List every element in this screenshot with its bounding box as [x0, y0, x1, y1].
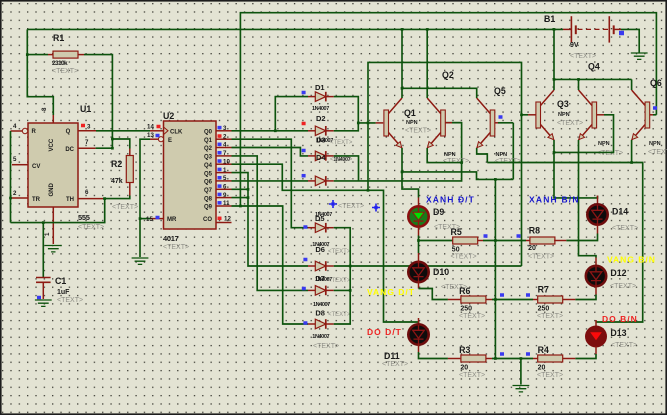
- svg-text:<TEXT>: <TEXT>: [459, 372, 485, 379]
- svg-text:<TEXT>: <TEXT>: [163, 244, 189, 251]
- junction Q0/D1: [274, 129, 277, 132]
- wire Q1/Q5 collector link: [402, 88, 477, 98]
- pin D9 cathode stub: [418, 226, 420, 236]
- svg-text:GND: GND: [49, 183, 55, 197]
- svg-text:Q6: Q6: [650, 78, 662, 88]
- pin D11 anode stub: [418, 318, 420, 325]
- svg-text:<TEXT>: <TEXT>: [459, 313, 485, 320]
- svg-text:VCC: VCC: [49, 138, 55, 151]
- pin 3 Q0 stub: [216, 130, 232, 132]
- svg-text:Q3: Q3: [204, 155, 213, 161]
- transistor Q2 NPN: [441, 110, 446, 136]
- wire Q5 base down to bus: [512, 123, 514, 180]
- wire Q5/Q6 emitter to D13: [487, 163, 642, 323]
- svg-text:<TEXT>: <TEXT>: [597, 150, 623, 157]
- svg-text:U1: U1: [80, 104, 91, 114]
- pin 5 CV stub: [12, 164, 28, 166]
- svg-text:<TEXT>: <TEXT>: [112, 204, 138, 211]
- svg-text:1N4007: 1N4007: [312, 106, 329, 112]
- svg-text:<TEXT>: <TEXT>: [537, 313, 563, 320]
- svg-text:3: 3: [223, 125, 227, 132]
- svg-text:<TEXT>: <TEXT>: [610, 283, 636, 290]
- wire Q1 emitter to D9: [402, 148, 419, 198]
- ground U2: [132, 258, 149, 264]
- pin 2 Q1 stub: [216, 138, 232, 140]
- junction base net / green bus: [367, 122, 370, 125]
- node markers R6 R7 row: [500, 293, 504, 297]
- wire Q2 collector to rail: [426, 29, 428, 98]
- transistor Q3 NPN: [536, 102, 541, 128]
- junction C1 top: [42, 221, 45, 224]
- svg-text:<TEXT>: <TEXT>: [405, 128, 431, 135]
- svg-text:D2: D2: [316, 114, 326, 123]
- svg-text:555: 555: [78, 213, 90, 222]
- wire right rail drop to Q3 collector: [553, 29, 555, 90]
- svg-text:DO D/T: DO D/T: [367, 327, 402, 337]
- node markers R5 R8 row: [484, 234, 488, 238]
- wire Q1 emitter to resistor bus: [402, 172, 513, 180]
- pin D11 cathode stub: [418, 344, 420, 352]
- svg-text:2: 2: [223, 133, 227, 140]
- svg-text:D13: D13: [610, 328, 626, 338]
- svg-text:<TEXT>: <TEXT>: [611, 342, 637, 349]
- pin 5 Q6 stub: [216, 180, 232, 182]
- diode D6 1N4007: [308, 265, 315, 267]
- counter U2 4017 body: [164, 121, 217, 229]
- svg-text:7: 7: [223, 150, 227, 157]
- pin 4 R stub with bubble: [11, 130, 23, 132]
- wire Q3 base stub: [522, 114, 529, 116]
- ground U1: [45, 246, 62, 252]
- svg-text:47k: 47k: [111, 178, 123, 185]
- svg-text:1N4007: 1N4007: [313, 302, 330, 308]
- wire R2 bottom to TH: [103, 196, 130, 199]
- svg-text:NPN: NPN: [406, 120, 418, 126]
- led D11 DO D/T: [408, 324, 428, 344]
- svg-text:11: 11: [223, 200, 230, 207]
- resistor R2: [129, 149, 131, 156]
- svg-text:Q1: Q1: [404, 108, 416, 118]
- svg-text:CV: CV: [32, 164, 40, 170]
- svg-text:R1: R1: [53, 33, 64, 43]
- diode D2 1N4007: [308, 130, 315, 132]
- svg-text:R6: R6: [459, 286, 470, 296]
- svg-text:Q6: Q6: [204, 180, 213, 186]
- wire Q8 join D6 net: [232, 197, 249, 199]
- junction TH node: [103, 197, 106, 200]
- pin D13 cathode stub: [595, 346, 597, 354]
- svg-text:1: 1: [223, 167, 227, 174]
- wire red group joins Q3 base net: [350, 265, 521, 267]
- svg-text:15: 15: [146, 216, 153, 223]
- wire Q2 base stub: [445, 122, 452, 124]
- svg-text:Q4: Q4: [588, 62, 600, 72]
- pin 2 TR stub: [11, 197, 29, 199]
- diode D8 1N4007: [308, 323, 315, 325]
- wire D1 cathode to Q1 base net: [334, 97, 359, 123]
- svg-text:D14: D14: [612, 207, 628, 217]
- svg-text:6: 6: [223, 184, 227, 191]
- svg-text:<TEXT>: <TEXT>: [451, 254, 477, 261]
- pin 8 VCC stub: [52, 115, 54, 123]
- svg-text:<TEXT>: <TEXT>: [537, 372, 563, 379]
- svg-text:Q7: Q7: [204, 188, 213, 194]
- svg-text:D12: D12: [610, 268, 626, 278]
- pin D14 anode stub: [597, 196, 599, 205]
- pin 13 E stub with bubble: [150, 138, 159, 140]
- wire R6 to R7: [492, 299, 533, 301]
- node markers R3 R4 row: [500, 352, 504, 356]
- svg-text:TR: TR: [32, 197, 41, 203]
- transistor Q4 NPN: [592, 102, 597, 128]
- wire D10 cathode to R6: [419, 289, 448, 300]
- wire Q6 base stub: [653, 114, 656, 116]
- svg-text:20: 20: [538, 365, 546, 372]
- svg-text:MR: MR: [167, 217, 177, 223]
- svg-text:10: 10: [223, 158, 230, 165]
- svg-text:R7: R7: [538, 285, 549, 295]
- svg-text:NPN: NPN: [649, 141, 661, 147]
- pin 14 CLK stub: [150, 130, 164, 132]
- wire Q7 join D6 net: [232, 188, 249, 190]
- pin D14 cathode stub: [597, 224, 599, 233]
- svg-text:D5: D5: [315, 214, 325, 223]
- diode D7 1N4007: [308, 289, 315, 291]
- svg-text:R5: R5: [451, 227, 462, 237]
- wire mid bus upper: [494, 179, 496, 240]
- svg-text:D4: D4: [316, 153, 326, 162]
- wire Q0 to D1 D2 anodes: [232, 130, 309, 132]
- svg-text:DO B/N: DO B/N: [602, 314, 638, 324]
- wire Q5 to D6 anode: [232, 173, 309, 266]
- svg-text:D9: D9: [433, 207, 444, 217]
- ground battery: [631, 53, 648, 59]
- pin D10 cathode stub: [418, 282, 420, 289]
- pin 7 Q3 stub: [216, 155, 232, 157]
- svg-text:1N4007: 1N4007: [312, 334, 329, 340]
- svg-text:5: 5: [223, 175, 227, 182]
- svg-text:Q1: Q1: [204, 138, 213, 144]
- svg-text:2310k: 2310k: [52, 60, 68, 67]
- diode D4 1N4007: [308, 180, 315, 182]
- node marker Q6 base: [653, 106, 657, 110]
- junction D7 cathode: [334, 289, 351, 291]
- junction Q3 base: [520, 113, 523, 116]
- svg-text:XANH Đ/T: XANH Đ/T: [426, 195, 475, 205]
- svg-text:4017: 4017: [163, 234, 179, 243]
- wire D9 cathode chain: [418, 236, 420, 254]
- svg-text:250: 250: [460, 306, 472, 313]
- svg-text:Q: Q: [66, 129, 71, 135]
- wire Q4 to D11 feed: [232, 164, 419, 324]
- wire Q9 to D8 anode: [232, 206, 309, 324]
- svg-text:Q2: Q2: [204, 146, 213, 152]
- svg-text:CLK: CLK: [170, 130, 183, 136]
- wire D2 cathode join: [334, 123, 359, 131]
- svg-text:VANG B/N: VANG B/N: [607, 255, 656, 265]
- diode D3 1N4007: [308, 155, 315, 157]
- wire R3 to R4: [492, 358, 533, 360]
- transistor Q6 NPN: [645, 102, 650, 128]
- op-amp U1 555 timer body: [28, 123, 78, 207]
- wire base net down to D11 feed: [367, 123, 369, 190]
- svg-text:CO: CO: [203, 217, 212, 223]
- svg-text:<TEXT>: <TEXT>: [570, 53, 596, 60]
- pin 12 CO stub: [216, 222, 232, 224]
- svg-text:D7: D7: [315, 274, 325, 283]
- pin D12 anode stub: [595, 258, 597, 267]
- wire Q6 collector drop: [631, 79, 633, 90]
- wire Q2 emitter join: [427, 148, 461, 163]
- node marker Q5 base: [499, 115, 503, 119]
- svg-text:C1: C1: [55, 276, 66, 286]
- svg-text:D3: D3: [316, 136, 326, 145]
- wire D11 cathode to R3: [419, 352, 448, 359]
- wire network ground tap: [520, 359, 522, 385]
- wire Q out to U2 CLK: [96, 130, 150, 132]
- svg-text:<TEXT>: <TEXT>: [313, 343, 339, 350]
- pin 3 Q stub: [78, 130, 96, 132]
- wire DC node: [96, 147, 113, 149]
- junction D1 D2 cathodes: [357, 122, 360, 125]
- svg-text:50: 50: [452, 247, 460, 254]
- battery B1 9V: [563, 28, 571, 30]
- svg-text:14: 14: [147, 124, 154, 131]
- svg-text:R: R: [32, 129, 37, 135]
- resistor R4: [533, 358, 538, 360]
- svg-text:<TEXT>: <TEXT>: [328, 278, 351, 284]
- ground resistor network: [513, 386, 530, 392]
- transistor Q5 NPN: [490, 110, 495, 136]
- svg-text:<TEXT>: <TEXT>: [495, 158, 521, 165]
- junction R1 left: [26, 53, 29, 56]
- pin D13 anode stub: [595, 320, 597, 327]
- svg-text:8: 8: [41, 107, 48, 111]
- svg-text:<TEXT>: <TEXT>: [328, 312, 351, 318]
- svg-text:250: 250: [538, 306, 550, 313]
- svg-text:NPN: NPN: [598, 141, 610, 147]
- wire VCC rail top: [27, 28, 563, 30]
- pin 11 Q9 stub: [216, 205, 232, 207]
- resistor R3: [448, 358, 461, 360]
- svg-text:XANH B/N: XANH B/N: [529, 195, 580, 205]
- svg-text:E: E: [168, 138, 172, 144]
- svg-text:D10: D10: [433, 267, 449, 277]
- pin 1 GND stub: [52, 207, 54, 244]
- svg-text:Q8: Q8: [204, 196, 213, 202]
- svg-text:Q5: Q5: [204, 171, 213, 177]
- wire Q6 emitter join: [631, 140, 633, 163]
- svg-text:9: 9: [223, 192, 227, 199]
- wire Q4 collector drop: [578, 79, 580, 90]
- svg-text:Q3: Q3: [557, 99, 569, 109]
- wire Q6 to D4 anode: [232, 180, 309, 182]
- wire battery to ground: [621, 29, 639, 53]
- svg-text:R4: R4: [538, 345, 549, 355]
- svg-text:3: 3: [87, 124, 91, 131]
- wire TH-TR-C1 net: [103, 198, 105, 200]
- svg-text:2: 2: [13, 190, 17, 197]
- svg-text:20: 20: [460, 365, 468, 372]
- svg-text:TH: TH: [66, 197, 74, 203]
- wire rail left drop to VCC node: [27, 29, 53, 115]
- svg-text:D6: D6: [315, 245, 325, 254]
- wire D3 D4 cathodes to Q2 base: [334, 156, 359, 181]
- svg-text:<TEXT>: <TEXT>: [338, 203, 364, 210]
- origin marker crosses: [329, 200, 337, 208]
- junction R5 tap: [417, 239, 420, 242]
- svg-text:<TEXT>: <TEXT>: [648, 149, 667, 156]
- capacitor C1: [36, 278, 51, 283]
- pin D10 anode stub: [418, 253, 420, 263]
- junction mid bus R6 row: [494, 298, 497, 301]
- svg-text:<TEXT>: <TEXT>: [612, 225, 638, 232]
- svg-text:<TEXT>: <TEXT>: [330, 157, 353, 163]
- svg-text:R2: R2: [111, 159, 122, 169]
- svg-text:<TEXT>: <TEXT>: [443, 158, 469, 165]
- svg-text:4: 4: [13, 123, 17, 130]
- diode D1 1N4007: [308, 96, 315, 98]
- svg-text:U2: U2: [163, 111, 174, 121]
- resistor R8: [526, 240, 531, 242]
- svg-text:D1: D1: [315, 83, 325, 92]
- svg-text:VANG D/T: VANG D/T: [367, 287, 415, 297]
- resistor R6: [447, 299, 449, 301]
- svg-text:D8: D8: [315, 308, 325, 317]
- svg-text:R3: R3: [459, 345, 470, 355]
- wire Q3 to D7 anode: [232, 156, 309, 291]
- resistor R7: [533, 299, 538, 301]
- pin D9 anode stub: [418, 198, 420, 208]
- wire Q2 to D3 anode: [232, 148, 309, 156]
- junction mid bus bottom: [494, 357, 497, 360]
- wire D5-D8 cathode bus: [334, 228, 351, 324]
- wire DC to R2 top: [112, 139, 129, 149]
- junction mid bus top: [494, 239, 497, 242]
- wire Q5 emitter jog: [477, 148, 488, 163]
- svg-text:<TEXT>: <TEXT>: [78, 224, 104, 231]
- pin D12 cathode stub: [595, 286, 597, 295]
- svg-text:5: 5: [13, 156, 17, 163]
- svg-text:<TEXT>: <TEXT>: [528, 254, 554, 261]
- wire R-TR left vertical: [10, 131, 12, 223]
- wire Q3 emitter to D14: [554, 140, 598, 198]
- wire Q4 base from Q3 emitter: [554, 115, 614, 153]
- svg-text:D11: D11: [384, 351, 400, 361]
- resistor R1: [27, 54, 48, 56]
- svg-text:9V: 9V: [570, 42, 579, 49]
- svg-text:7: 7: [85, 139, 89, 146]
- svg-text:1uF: 1uF: [57, 289, 70, 296]
- wire D1 net to Q3 base route: [368, 62, 522, 266]
- wire Q9 to top rail: [240, 13, 656, 206]
- wire D13 cathode to R4: [575, 354, 596, 359]
- led D12 VANG B/N: [586, 266, 606, 286]
- pin 6 TH stub: [78, 198, 103, 200]
- wire D14 cathode to R8: [566, 234, 597, 241]
- pin 10 Q4 stub: [216, 163, 232, 165]
- svg-text:1: 1: [44, 232, 51, 236]
- svg-text:NPN: NPN: [558, 112, 570, 118]
- wire R1 right to DC node: [84, 55, 112, 149]
- ground C1: [35, 300, 52, 306]
- svg-text:12: 12: [224, 216, 231, 223]
- svg-text:Q4: Q4: [204, 163, 213, 169]
- wire E to MR to ground: [140, 139, 150, 257]
- svg-text:<TEXT>: <TEXT>: [328, 249, 351, 255]
- pin 7 DC stub: [78, 147, 96, 149]
- resistor R5: [419, 240, 453, 242]
- led D14 XANH B/N: [587, 204, 607, 224]
- svg-text:Q9: Q9: [204, 205, 213, 211]
- wire right collector rail: [554, 78, 632, 80]
- wire mid bus lower: [494, 241, 496, 359]
- pin 4 Q2 stub: [216, 147, 232, 149]
- led D13 red DO B/N: [585, 326, 607, 348]
- svg-text:Q5: Q5: [494, 86, 506, 96]
- wire C1 top: [42, 223, 44, 278]
- pin 1 Q5 stub: [216, 172, 232, 174]
- junction D6 cathode: [334, 265, 351, 267]
- node markers diode column: [302, 91, 306, 95]
- wire Q1 to D5 anode: [232, 139, 309, 228]
- junction DC/R1: [111, 138, 114, 141]
- svg-text:Q2: Q2: [442, 70, 454, 80]
- svg-text:<TEXT>: <TEXT>: [52, 68, 78, 75]
- svg-text:<TEXT>: <TEXT>: [330, 140, 353, 146]
- svg-text:<TEXT>: <TEXT>: [57, 297, 83, 304]
- svg-text:B1: B1: [544, 14, 555, 24]
- svg-text:4: 4: [223, 142, 227, 149]
- svg-text:R8: R8: [529, 226, 540, 236]
- pin 6 Q7 stub: [216, 188, 232, 190]
- svg-text:13: 13: [147, 132, 154, 139]
- svg-text:20: 20: [528, 245, 536, 252]
- svg-text:Q0: Q0: [204, 130, 213, 136]
- wire MR to gnd vertical: [140, 218, 150, 220]
- wire Q1 base: [358, 122, 375, 124]
- wire Q1 collector to rail: [401, 29, 403, 98]
- wire D12 cathode to R7: [575, 295, 596, 300]
- svg-text:<TEXT>: <TEXT>: [382, 361, 408, 368]
- wire R5 to R8: [483, 240, 526, 242]
- led D10 VANG D/T: [408, 262, 428, 282]
- diode D5 1N4007: [308, 227, 315, 229]
- wire D1 anode branch: [275, 97, 308, 131]
- pin 9 Q8 stub: [216, 197, 232, 199]
- node marker battery: [619, 31, 624, 36]
- led D9 green XANH D/T: [408, 206, 428, 226]
- svg-text:6: 6: [85, 189, 89, 196]
- wire Q4 emitter to D12: [579, 140, 597, 258]
- pin 15 MR stub: [150, 218, 164, 220]
- transistor Q1 NPN: [384, 110, 389, 136]
- svg-text:DC: DC: [65, 147, 74, 153]
- svg-text:<TEXT>: <TEXT>: [557, 120, 583, 127]
